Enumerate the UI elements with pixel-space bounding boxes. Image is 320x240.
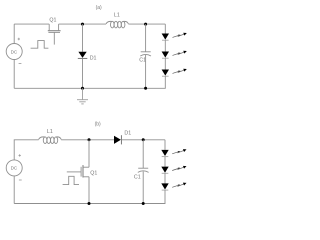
wire LED branch top corner (b): [164, 140, 166, 150]
diode D1 (a): [78, 52, 88, 59]
wire DC+ up to top rail (a): [13, 24, 15, 43]
wire LED2 to LED3 (a): [164, 58, 166, 69]
wire DC- down to bottom rail (b): [13, 176, 15, 204]
gate pulse waveform (a): [31, 41, 49, 49]
LED LED1 (b): [161, 150, 168, 157]
wire top rail L1 to right corner (a): [128, 23, 165, 25]
svg-text:C1: C1: [139, 58, 146, 64]
wire LED branch bottom and bottom rail (a): [14, 76, 165, 88]
wire LED2 to LED3 (b): [164, 173, 166, 183]
node junction bottom D1 (a): [81, 87, 84, 90]
transistor Q1 (a): [48, 24, 61, 44]
svg-text:L1: L1: [47, 129, 53, 135]
node junction bottom Q1 source (b): [88, 202, 91, 205]
LED LED3 (a): [162, 70, 169, 77]
LED3 light arrows (a): [173, 69, 187, 74]
node junction bottom C1 (a): [144, 87, 147, 90]
svg-text:Q1: Q1: [49, 17, 56, 23]
wire C1 branch upper (b): [142, 140, 144, 168]
node junction bottom C1 (b): [142, 202, 145, 205]
svg-text:DC: DC: [11, 49, 18, 54]
transistor Q1 (b): [67, 140, 89, 204]
gate pulse waveform (b): [63, 176, 79, 184]
LED3 light arrows (b): [172, 183, 186, 188]
wire LED1 to LED2 (b): [164, 157, 166, 167]
LED LED3 (b): [161, 183, 168, 190]
wire D1 branch lower (a): [82, 58, 84, 88]
node junction at C1 top (b): [142, 138, 145, 141]
wire C1 branch upper (a): [145, 24, 147, 52]
svg-text:D1: D1: [90, 56, 97, 62]
svg-text:L1: L1: [114, 13, 120, 19]
capacitor C1 (a): [140, 52, 151, 56]
wire DC- down to bottom rail (a): [13, 60, 15, 89]
svg-text:DC: DC: [11, 166, 18, 171]
LED LED1 (a): [162, 34, 169, 41]
LED LED2 (a): [162, 52, 169, 59]
LED LED2 (b): [161, 167, 168, 174]
wire top rail left segment (a): [14, 23, 49, 25]
svg-text:D1: D1: [124, 131, 131, 137]
wire LED branch bottom and bottom rail (b): [14, 190, 165, 203]
wire LED1 to LED2 (a): [164, 40, 166, 51]
DC source V1 (b): [6, 154, 22, 180]
LED2 light arrows (a): [173, 51, 187, 56]
wire top rail L1 to D1 (b): [61, 139, 114, 141]
wire top rail D1 to corner (b): [121, 139, 165, 141]
svg-text:(b): (b): [95, 122, 101, 128]
LED1 light arrows (b): [172, 149, 186, 154]
capacitor C1 (b): [138, 168, 149, 172]
diode D1 (b): [114, 135, 121, 144]
wire C1 branch lower (b): [142, 171, 144, 203]
LED2 light arrows (b): [172, 166, 186, 171]
wire D1 branch upper (a): [82, 24, 84, 52]
svg-text:C1: C1: [134, 175, 141, 181]
DC source V1 (a): [6, 38, 22, 64]
svg-text:(a): (a): [96, 5, 102, 11]
inductor L1 (b): [39, 137, 62, 144]
wire DC+ up to top rail (b): [14, 140, 38, 160]
node junction drain top (b): [88, 138, 91, 141]
LED1 light arrows (a): [173, 33, 187, 38]
wire LED branch top corner (a): [164, 24, 166, 33]
wire top rail Q1 to L1 (a): [59, 23, 106, 25]
node junction at C1 top (a): [144, 23, 147, 26]
ground symbol (a): [77, 88, 88, 104]
node junction at D1 top (a): [81, 23, 84, 26]
inductor L1 (a): [106, 21, 128, 28]
wire C1 branch lower (a): [145, 55, 147, 88]
svg-text:Q1: Q1: [90, 171, 97, 177]
